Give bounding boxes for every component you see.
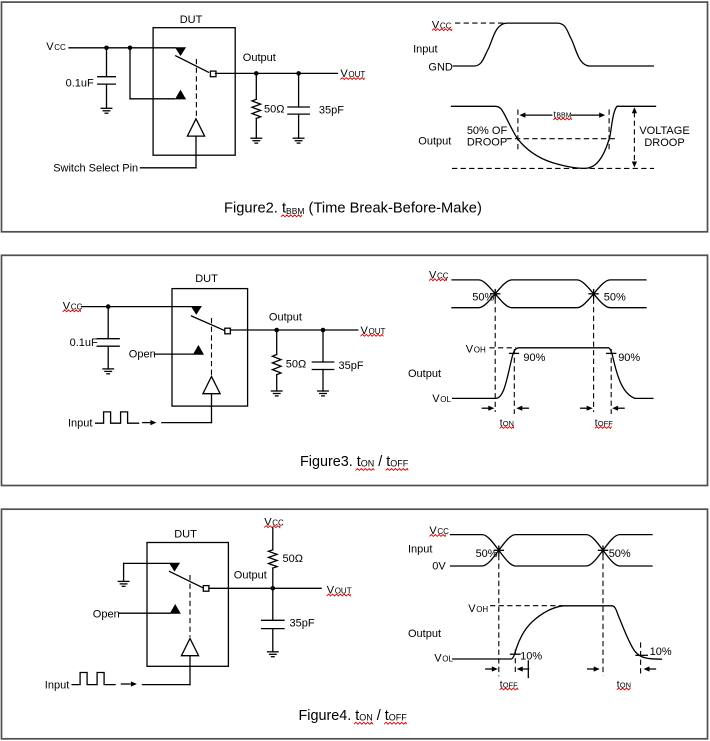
90% label left (fig3)	[523, 352, 545, 364]
svg-text:50%: 50%	[609, 548, 631, 560]
dashed 50% droop level line	[506, 138, 616, 140]
wire Open to contact (fig4)	[119, 612, 170, 614]
junction dot output node (fig4)	[271, 586, 276, 591]
DUT box U3	[172, 289, 248, 407]
output waveform with droop	[452, 106, 656, 168]
node VCC label (fig3)	[63, 301, 83, 313]
wire VCC to DUT (fig3)	[82, 306, 192, 308]
Output label (fig4 timing)	[408, 628, 441, 640]
svg-text:OH: OH	[474, 345, 486, 354]
node Open label (fig4)	[93, 608, 120, 620]
wire branch to NC contact	[130, 48, 175, 99]
tON label (fig3)	[500, 418, 514, 429]
input arrow (fig3)	[143, 420, 157, 425]
panel border figure 2	[2, 2, 708, 232]
input waveform	[453, 23, 653, 66]
svg-text:ON: ON	[620, 681, 631, 690]
node VOUT label (fig3)	[361, 325, 386, 337]
node Output label (fig3)	[269, 311, 302, 323]
VCC label (fig4 timing)	[429, 525, 449, 537]
tON label (fig4)	[617, 680, 631, 691]
junction dot output-C4	[321, 328, 326, 333]
switch throw contact NC (triangle)	[175, 90, 186, 100]
capacitor C5 value label	[290, 618, 315, 630]
DUT label (fig4)	[174, 529, 197, 541]
svg-text:Output: Output	[418, 136, 451, 148]
switch throw contact from VCC (triangle)	[191, 306, 202, 315]
svg-text:Output: Output	[234, 570, 267, 582]
svg-text:50%: 50%	[472, 292, 494, 304]
svg-text:CC: CC	[54, 43, 66, 52]
svg-text:OUT: OUT	[369, 327, 386, 336]
50% label left (fig3)	[472, 292, 494, 304]
50% crossing mark left (fig4)	[494, 546, 503, 554]
svg-text:DROOP: DROOP	[644, 137, 684, 149]
dashed line 90% rise (fig3)	[513, 349, 515, 414]
dashed droop bottom line	[452, 167, 654, 169]
switch pole square	[210, 71, 216, 77]
switch throw contact NO (triangle)	[175, 47, 186, 56]
capacitor C5 35pF (fig4)	[262, 588, 284, 652]
tBBM arrow right head	[571, 113, 605, 118]
dashed line 50% left (fig4)	[498, 555, 500, 676]
dashed marker line right (tBBM)	[608, 110, 610, 152]
50% label right (fig4)	[609, 548, 631, 560]
svg-text:V: V	[468, 603, 476, 615]
ground below C4	[318, 391, 329, 396]
resistor R3 50ohm (fig4)	[269, 550, 278, 589]
switch control dashed line	[195, 59, 197, 117]
dashed line 50% right (fig4)	[602, 555, 604, 676]
svg-text:Input: Input	[413, 43, 437, 55]
tBBM arrow left head	[519, 113, 551, 118]
Output label (waveform)	[418, 136, 451, 148]
node Output label (fig4)	[234, 570, 267, 582]
svg-text:Input: Input	[408, 544, 432, 556]
svg-text:V: V	[432, 393, 440, 405]
VOH label (fig4)	[468, 603, 488, 615]
tON measure arrows (fig4)	[588, 666, 656, 671]
ground at switch input (fig4)	[118, 563, 129, 586]
tON measure arrows (fig3)	[482, 406, 528, 411]
90% tick right (fig3)	[607, 352, 616, 354]
svg-text:0.1uF: 0.1uF	[66, 77, 94, 89]
resistor R1 value label	[264, 104, 284, 116]
resistor R2 50ohm (fig3)	[272, 330, 281, 391]
svg-text:OH: OH	[476, 605, 488, 614]
svg-text:VOLTAGE: VOLTAGE	[639, 125, 689, 137]
caption Figure2	[224, 200, 482, 216]
svg-text:V: V	[46, 41, 54, 53]
junction dot VCC-C1	[104, 46, 109, 51]
svg-text:DUT: DUT	[195, 273, 218, 285]
junction dot output-C2	[296, 71, 301, 76]
svg-text:OUT: OUT	[335, 587, 352, 596]
DUT box U5	[147, 543, 228, 667]
GND level label	[428, 61, 453, 73]
panel border figure 3	[2, 255, 708, 485]
dashed line 90% fall (fig3)	[610, 349, 612, 414]
dashed line 50% left (fig3)	[494, 299, 496, 413]
Output label (fig3 timing)	[408, 368, 441, 380]
tOFF label (fig3)	[595, 418, 613, 429]
switch arm S3	[170, 572, 204, 588]
wire ground to contact (fig4)	[124, 562, 169, 564]
wire buffer to select pin	[141, 136, 197, 168]
svg-text:50Ω: 50Ω	[283, 553, 303, 565]
svg-text:50%: 50%	[476, 548, 498, 560]
svg-text:10%: 10%	[520, 651, 542, 663]
svg-text:Figure3. tON / tOFF: Figure3. tON / tOFF	[300, 454, 409, 470]
svg-text:Open: Open	[93, 608, 120, 620]
switch pole square (fig3)	[225, 328, 231, 334]
50% label right (fig3)	[604, 292, 626, 304]
svg-text:10%: 10%	[650, 646, 672, 658]
50% OF DROOP label	[467, 125, 508, 149]
50% crossing mark right (fig3)	[589, 290, 598, 298]
svg-text:Switch Select Pin: Switch Select Pin	[53, 163, 138, 175]
svg-text:0.1uF: 0.1uF	[70, 337, 98, 349]
svg-text:V: V	[466, 343, 474, 355]
VCC level label (input waveform)	[432, 19, 452, 31]
node Input label (fig4)	[45, 679, 69, 691]
0V label (fig4)	[432, 561, 446, 573]
svg-text:OL: OL	[440, 395, 451, 404]
ground below C5	[268, 652, 279, 657]
svg-text:Output: Output	[243, 52, 276, 64]
svg-text:GND: GND	[428, 61, 453, 73]
wire Output (fig3)	[230, 329, 357, 331]
node VOUT label	[340, 68, 365, 80]
buffer U6 (fig4)	[181, 638, 198, 655]
svg-text:Figure4. tON / tOFF: Figure4. tON / tOFF	[299, 708, 408, 724]
50% crossing mark left (fig3)	[491, 290, 500, 298]
switch pole square (fig4)	[203, 586, 209, 592]
tOFF measure arrows (fig4)	[486, 661, 529, 678]
VOLTAGE DROOP label	[639, 125, 689, 149]
svg-text:50% OF: 50% OF	[467, 125, 508, 137]
input crossover waveform (fig3)	[452, 280, 646, 308]
DUT label (fig3)	[195, 273, 218, 285]
buffer U2 (switch driver)	[187, 119, 204, 136]
10% tick left (fig4)	[511, 653, 521, 655]
dashed VOH level (fig3)	[489, 347, 516, 349]
node VCC label	[46, 41, 66, 53]
svg-text:OL: OL	[442, 655, 453, 664]
node VOUT label (fig4)	[327, 585, 352, 597]
svg-text:35pF: 35pF	[290, 618, 315, 630]
VOL label (fig3)	[432, 393, 451, 405]
tOFF label (fig4)	[500, 680, 518, 691]
node Switch Select Pin label	[53, 163, 138, 175]
90% tick left (fig3)	[510, 352, 519, 354]
dashed VOH level (fig4)	[490, 605, 563, 607]
Input label	[413, 43, 437, 55]
svg-text:Output: Output	[269, 311, 302, 323]
svg-text:0V: 0V	[432, 561, 446, 573]
svg-text:Input: Input	[68, 417, 92, 429]
50% crossing mark right (fig4)	[598, 546, 607, 554]
junction dot output-R1	[254, 71, 259, 76]
svg-text:Output: Output	[408, 368, 441, 380]
wire VCC to DUT	[69, 47, 175, 49]
voltage droop arrow	[632, 107, 637, 167]
10% label right (fig4)	[650, 646, 672, 658]
ground below R1	[251, 138, 262, 143]
svg-text:Input: Input	[45, 679, 69, 691]
junction dot VCC-branch	[128, 46, 133, 51]
svg-text:35pF: 35pF	[319, 104, 344, 116]
10% tick right (fig4)	[636, 654, 647, 656]
output waveform (fig4)	[453, 606, 662, 659]
switch arm S2	[192, 316, 226, 331]
svg-text:V: V	[434, 653, 442, 665]
wire Open to contact	[155, 353, 193, 355]
capacitor C2 value label	[319, 104, 344, 116]
90% label right (fig3)	[618, 352, 640, 364]
switch control dashed line (fig3)	[211, 318, 213, 375]
node VCC label top (fig4)	[264, 516, 284, 528]
input arrow (fig4)	[121, 681, 136, 686]
tBBM label	[553, 110, 571, 120]
switch throw contact open (triangle, fig4)	[170, 604, 181, 614]
ground below R2	[271, 391, 282, 396]
wire buffer to input (fig4)	[143, 656, 191, 685]
ground below C2	[293, 138, 304, 143]
10% label left (fig4)	[520, 651, 542, 663]
node Input label (fig3)	[68, 417, 92, 429]
wire VCC to resistor (fig4)	[272, 528, 274, 550]
svg-text:90%: 90%	[618, 352, 640, 364]
capacitor C4 value label	[339, 360, 364, 372]
switch arm S1	[176, 56, 209, 73]
caption Figure3	[300, 454, 409, 470]
resistor R2 value label	[286, 359, 306, 371]
ground below C1	[101, 108, 112, 113]
node Open label (fig3)	[129, 349, 156, 361]
Input label (fig4 timing)	[408, 544, 432, 556]
DUT label	[180, 14, 203, 26]
caption Figure4	[299, 708, 408, 724]
resistor R3 value label	[283, 553, 303, 565]
resistor R1 50ohm	[252, 73, 261, 138]
input pulse glyph (fig3)	[96, 412, 139, 423]
svg-text:50Ω: 50Ω	[286, 359, 306, 371]
svg-text:35pF: 35pF	[339, 360, 364, 372]
output waveform (fig3)	[453, 348, 653, 399]
switch throw contact open (triangle)	[193, 345, 204, 355]
capacitor C4 35pF (fig3)	[312, 330, 333, 391]
svg-text:Output: Output	[408, 628, 441, 640]
panel border figure 4	[2, 509, 708, 739]
wire Output (fig4)	[209, 587, 321, 589]
capacitor C3 value label	[70, 337, 98, 349]
svg-text:Figure2. tBBM (Time Break-Befo: Figure2. tBBM (Time Break-Before-Make)	[224, 200, 482, 216]
svg-text:DUT: DUT	[174, 529, 197, 541]
dashed line 10% rise (fig4)	[514, 650, 516, 674]
dashed line 10% fall (fig4)	[640, 642, 642, 674]
50% label left (fig4)	[476, 548, 498, 560]
ground below C3	[103, 369, 114, 374]
svg-text:90%: 90%	[523, 352, 545, 364]
buffer U4 (fig3)	[203, 376, 220, 393]
wire buffer to input (fig3)	[162, 394, 212, 423]
wire Output	[215, 72, 337, 74]
capacitor C1 value label	[66, 77, 94, 89]
dashed marker line left (tBBM)	[517, 110, 519, 152]
input crossover waveform (fig4)	[451, 535, 652, 566]
VCC label (fig3 timing)	[429, 269, 449, 281]
capacitor C3 0.1uF (fig3)	[97, 307, 119, 369]
switch throw contact grounded (triangle)	[169, 563, 180, 572]
dashed line 50% right (fig3)	[593, 299, 595, 413]
dashed VCC level line	[455, 22, 507, 24]
node Output label	[243, 52, 276, 64]
VOL label (fig4)	[434, 653, 453, 665]
svg-text:50%: 50%	[604, 292, 626, 304]
DUT box U1	[153, 28, 235, 156]
svg-text:50Ω: 50Ω	[264, 104, 284, 116]
junction dot VCC-C3	[106, 304, 111, 309]
svg-text:DUT: DUT	[180, 14, 203, 26]
input pulse glyph (fig4)	[72, 673, 115, 685]
capacitor C2 35pF	[288, 73, 309, 138]
VOH label (fig3)	[466, 343, 486, 355]
switch control dashed line (fig4)	[189, 575, 191, 637]
svg-text:DROOP: DROOP	[467, 137, 507, 149]
capacitor C1 0.1uF	[98, 48, 116, 109]
junction dot output-R2	[274, 328, 279, 333]
tOFF measure arrows (fig3)	[581, 406, 624, 411]
svg-text:Open: Open	[129, 349, 156, 361]
svg-text:ON: ON	[503, 419, 514, 428]
